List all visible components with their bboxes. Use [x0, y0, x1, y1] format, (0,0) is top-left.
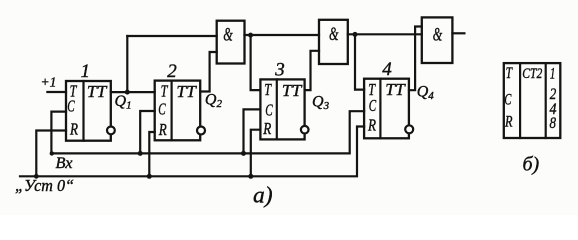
svg-text:R: R: [158, 120, 167, 139]
svg-text:R: R: [504, 114, 513, 131]
svg-text:&: &: [433, 25, 443, 46]
svg-text:CT2: CT2: [522, 66, 542, 82]
wire Bx input bus: [51, 111, 364, 153]
svg-text:б): б): [523, 153, 540, 175]
wire Set0 bus: [20, 127, 364, 177]
svg-text:TT: TT: [87, 82, 108, 101]
svg-text:&: &: [329, 24, 339, 45]
svg-text:T: T: [161, 82, 169, 101]
wire DD1 R input from Set0 bus: [36, 131, 66, 177]
wire Q2 to U1 lower input: [200, 52, 217, 92]
svg-text:4: 4: [382, 59, 392, 80]
svg-text:TT: TT: [282, 81, 303, 100]
svg-text:8: 8: [550, 115, 557, 132]
wire DD3 R riser: [251, 130, 261, 177]
svg-text:3: 3: [274, 60, 285, 81]
node Bx to DD2 C junction: [138, 151, 143, 156]
node Bx left corner: [50, 151, 54, 155]
DD3 inverse output bubble: [301, 126, 309, 134]
svg-text:T: T: [264, 80, 272, 99]
wire DD1 C input from Bx bus: [51, 112, 66, 154]
DD4 inverse output bubble: [405, 125, 413, 133]
DD1 inverse output bubble: [107, 126, 115, 134]
svg-text:C: C: [369, 96, 377, 115]
svg-text:Q4: Q4: [417, 84, 435, 103]
flip-flop DD1 box: [66, 81, 111, 141]
node Q1 junction: [125, 90, 130, 95]
wire U1 output to U2 input: [245, 34, 320, 36]
node Set0 to DD3 R junction: [248, 174, 253, 179]
svg-text:1: 1: [550, 65, 556, 82]
node Bx to DD3 C junction: [241, 151, 246, 156]
svg-text:Q2: Q2: [205, 92, 223, 111]
svg-text:C: C: [67, 97, 75, 116]
node Set0 to DD2 R junction: [147, 174, 152, 179]
DD2 inverse output bubble: [197, 127, 205, 135]
flip-flop DD2 box: [155, 81, 201, 141]
wire carry riser to DD4 T: [355, 34, 364, 89]
svg-text:1: 1: [81, 61, 91, 82]
svg-text:„Уст 0“: „Уст 0“: [15, 176, 74, 195]
svg-text:C: C: [158, 100, 166, 119]
wire Q4 to U3 upper input: [409, 27, 422, 91]
svg-text:C: C: [265, 101, 273, 120]
flip-flop DD4 box: [364, 79, 409, 139]
svg-text:Вх: Вх: [56, 155, 73, 172]
wire U3 output stub: [452, 32, 464, 34]
svg-text:Q1: Q1: [115, 93, 132, 112]
wire carry riser to DD3 T: [251, 35, 261, 90]
node U1 output junction: [248, 33, 253, 38]
wire Q1 riser to carry line: [126, 36, 128, 92]
svg-text:R: R: [262, 119, 271, 138]
wire +1 input to DD1 T: [47, 91, 66, 93]
wire U2 output to U3 input: [348, 33, 422, 35]
flip-flop DD3 box: [260, 79, 304, 139]
wire DD3 C riser: [244, 109, 261, 153]
svg-text:&: &: [223, 24, 233, 45]
AND gate U2 box: [319, 20, 348, 64]
svg-text:+1: +1: [41, 74, 57, 89]
svg-text:C: C: [504, 92, 511, 109]
svg-text:а): а): [253, 183, 273, 209]
AND gate U1 box: [217, 21, 245, 64]
svg-text:Q3: Q3: [312, 94, 330, 113]
wire Q1 from DD1 to DD2 T: [111, 91, 155, 93]
wire DD2 C riser: [140, 111, 155, 153]
svg-text:T: T: [506, 65, 513, 82]
svg-text:2: 2: [167, 61, 177, 82]
counter CT2 symbol box: [504, 63, 561, 138]
node DD1 R to Set0 junction: [34, 174, 39, 179]
svg-text:R: R: [367, 116, 376, 135]
wire DD2 R riser: [149, 132, 154, 176]
svg-text:R: R: [69, 120, 78, 139]
AND gate U3 box: [422, 17, 453, 63]
wire Q3 to U2 lower input: [305, 51, 319, 90]
svg-text:TT: TT: [176, 82, 197, 101]
svg-text:TT: TT: [385, 80, 406, 99]
wire carry segment to U1 input: [127, 35, 216, 37]
node U2 output junction: [353, 32, 358, 37]
